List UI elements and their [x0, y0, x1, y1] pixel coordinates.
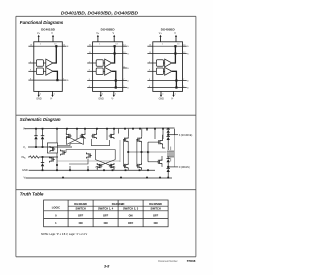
U1 internal rail wire 1 — [34, 45, 63, 47]
U1 driver buffer triangle channel 1 — [43, 59, 53, 67]
node S junction — [167, 133, 169, 137]
wire switch body loop — [174, 129, 176, 167]
wire switch gate node — [147, 142, 166, 162]
junction on V- rail x=168.2 — [167, 177, 169, 179]
footer document number — [158, 259, 195, 263]
svg-text:OFF: OFF — [128, 221, 134, 225]
wire inverter 2 gate — [137, 140, 143, 166]
U3 left pin 6 — [147, 86, 152, 88]
U1 switch wire channel 1 (to upper rails) — [53, 45, 57, 63]
U2 level shifter box channel 2 — [96, 68, 103, 75]
transistor Q4 — [109, 133, 114, 139]
U2 pin V- (bottom) — [111, 91, 117, 100]
junction on V+ rail x=163 — [162, 128, 164, 130]
IC U1 label — [41, 28, 56, 32]
U1 internal rail wire 2 — [34, 79, 63, 81]
transistor Q13 (inverter 2 N) — [136, 163, 141, 169]
transistor Q8 — [97, 163, 102, 169]
svg-text:GND: GND — [36, 98, 42, 101]
svg-text:GND: GND — [22, 168, 28, 172]
truth table row logic 1 — [55, 221, 57, 225]
terminal GND — [22, 168, 28, 172]
junction on GND rail x=148 — [147, 169, 149, 171]
terminal S (SOURCE) — [168, 135, 192, 137]
junction on V+ rail x=133 — [132, 128, 134, 130]
IC U1 body — [34, 42, 63, 92]
junction on V+ rail x=57 — [56, 128, 58, 130]
section separator rule 2 — [16, 189, 196, 191]
svg-text:S (SOURCE): S (SOURCE) — [179, 135, 193, 137]
transistor switch QSW (pass FET) — [167, 147, 174, 162]
wire drain stubs top row — [57, 129, 163, 143]
terminal V- — [24, 176, 28, 180]
junction on V+ rail x=147 — [146, 128, 148, 130]
svg-text:V-: V- — [111, 98, 113, 101]
U2 left pin 15 — [87, 52, 92, 54]
U1 pin V- (bottom) — [50, 91, 56, 100]
junction on V+ rail x=42.5 — [42, 128, 44, 130]
U3 driver buffer triangle channel 2 — [163, 67, 172, 75]
U2 left pin 9 — [87, 70, 96, 72]
heading Schematic Diagram — [20, 117, 61, 122]
transistor Q7 — [61, 150, 66, 156]
U2 left pin 8 — [87, 79, 92, 81]
U3 left pin 9 — [147, 70, 156, 72]
U2 switch wire channel 2 (to lower rails) — [112, 71, 117, 88]
U3 right pin S — [183, 45, 190, 49]
U3 internal rail wire 3 — [153, 80, 183, 82]
junction on GND rail x=125.5 — [125, 169, 127, 171]
U2 right pin D — [123, 79, 130, 83]
U3 left pin 16 — [147, 45, 152, 47]
wire driver outputs — [162, 135, 165, 167]
wire VL rail — [28, 146, 72, 148]
junction on V+ rail x=107 — [106, 128, 108, 130]
U2 left pin 6 — [87, 86, 92, 88]
U3 pin V- (bottom) — [171, 91, 177, 100]
U3 right pin S — [183, 52, 190, 56]
U2 pin GND (bottom) — [98, 91, 104, 100]
U1 right pin D — [62, 78, 69, 82]
transistor Q14 — [157, 139, 162, 145]
junction on GND rail x=112.5 — [112, 169, 114, 171]
terminal D (DRAIN) — [168, 166, 190, 169]
U2 driver buffer triangle channel 1 — [103, 59, 112, 67]
svg-text:V-: V- — [50, 98, 52, 101]
svg-text:LOGIC: LOGIC — [52, 205, 60, 209]
U1 pin V (top) — [51, 32, 57, 45]
U2 left pin 2 — [87, 61, 96, 63]
wire V- rail — [26, 177, 173, 179]
IC U3 label — [161, 28, 176, 32]
IC U2 label — [101, 28, 116, 32]
U3 left pin 8 — [147, 79, 152, 81]
junction on V+ rail x=77 — [76, 128, 78, 130]
diode D6 — [167, 156, 170, 168]
svg-text:ON: ON — [154, 221, 158, 225]
diode D3 — [41, 157, 44, 170]
U2 internal rail wire 3 — [93, 80, 123, 82]
junction on V+ rail x=155 — [154, 128, 156, 130]
node D junction — [167, 166, 169, 168]
transistor Q5 — [50, 146, 55, 152]
wire V+ rail — [25, 127, 175, 130]
svg-text:GND: GND — [98, 98, 104, 101]
svg-text:DG403/BD: DG403/BD — [112, 202, 125, 206]
svg-text:Truth Table: Truth Table — [20, 192, 44, 197]
section separator rule — [16, 114, 196, 116]
U3 right pin D — [183, 79, 190, 83]
junction on V- rail x=147 — [146, 177, 148, 179]
page header title — [61, 11, 139, 17]
U1 right pin S — [62, 45, 69, 49]
truth table footnote — [41, 233, 87, 236]
junction on V- rail x=160 — [159, 177, 161, 179]
U3 right pin D — [183, 86, 190, 90]
U1 pin GND (bottom) — [36, 91, 42, 100]
wire cross-couple Q1-Q2 — [67, 136, 84, 145]
U3 internal rail wire 2 — [153, 53, 183, 55]
terminal IN_A — [22, 155, 27, 159]
junction on V+ rail x=114 — [113, 128, 115, 130]
svg-text:DG401BD: DG401BD — [41, 28, 56, 32]
svg-text:OFF: OFF — [78, 213, 84, 217]
U1 left pin 2 — [28, 61, 36, 63]
U3 driver buffer triangle channel 1 — [163, 59, 172, 67]
transistor Q2 — [80, 133, 85, 139]
wire inverter 1 gate — [124, 140, 130, 166]
junction on GND rail x=139.5 — [139, 169, 141, 171]
svg-text:DG405/BD: DG405/BD — [149, 202, 162, 206]
svg-text:SWITCH 1, 4: SWITCH 1, 4 — [98, 207, 114, 211]
svg-text:ON: ON — [129, 213, 133, 217]
transistor Q6 — [50, 157, 55, 163]
transistor Q12 (inverter 2 P) — [136, 137, 141, 143]
U3 level shifter box channel 1 — [156, 60, 163, 67]
U2 driver buffer triangle channel 2 — [103, 67, 112, 75]
U3 left pin 15 — [147, 52, 152, 54]
svg-text:OFF: OFF — [153, 213, 159, 217]
junction on GND rail x=88 — [87, 169, 89, 171]
diode D2 — [41, 129, 44, 147]
U3 switch wire channel 2 (to lower rails) — [172, 71, 178, 88]
terminal VL — [23, 145, 27, 149]
junction on V+ rail x=168.2 — [167, 128, 169, 130]
IC U2 body — [93, 42, 123, 92]
svg-text:Functional Diagrams: Functional Diagrams — [20, 20, 64, 25]
U2 pin V (top) — [113, 32, 119, 45]
U2 level shifter box channel 1 — [96, 60, 103, 67]
svg-text:DG403BD: DG403BD — [101, 28, 116, 32]
U1 pin V+ (top) — [37, 32, 42, 45]
U1 left pin 16 — [28, 45, 33, 47]
junction on V+ rail x=97 — [96, 128, 98, 130]
junction on V- rail x=121 — [120, 177, 122, 179]
truth table header texts — [52, 205, 60, 209]
U3 left pin 2 — [147, 61, 156, 63]
svg-text:ON: ON — [104, 221, 108, 225]
wire bus 1 — [57, 139, 115, 164]
transistor Q7b — [87, 153, 92, 159]
svg-text:3-8: 3-8 — [104, 264, 109, 268]
svg-text:D (DRAIN): D (DRAIN) — [179, 166, 190, 169]
U3 internal rail wire 4 — [153, 87, 183, 89]
U1 driver buffer triangle channel 2 — [43, 67, 53, 75]
U2 right pin S — [123, 52, 130, 56]
heading Functional Diagrams — [20, 20, 64, 25]
U2 pin V+ (top) — [96, 32, 101, 45]
diode D5 — [167, 136, 170, 150]
terminal V+ — [23, 127, 27, 131]
svg-text:5TD08: 5TD08 — [187, 259, 196, 263]
transistor Q1 — [66, 133, 71, 139]
wire IN to logic cluster — [39, 156, 58, 158]
svg-text:Document Number: Document Number — [158, 260, 178, 263]
wire bottom row to GND — [57, 153, 142, 170]
junction on GND rail x=57 — [56, 169, 58, 171]
U1 left pin 9 — [28, 70, 36, 72]
junction on V+ rail x=140 — [139, 128, 141, 130]
junction on V+ rail x=36 — [35, 128, 37, 130]
svg-text:SWITCH: SWITCH — [75, 207, 85, 211]
svg-text:SWITCH 2, 3: SWITCH 2, 3 — [123, 207, 139, 211]
junction on V+ rail x=125 — [124, 128, 126, 130]
U2 left pin 16 — [87, 45, 92, 47]
junction on V+ rail x=85 — [84, 128, 86, 130]
U2 right pin D (mid) — [123, 66, 130, 70]
wire cross-couple bottom — [96, 150, 116, 168]
svg-text:OFF: OFF — [103, 213, 109, 217]
junction on V- rail x=63 — [62, 177, 64, 179]
truth table grid — [44, 200, 169, 227]
U2 internal rail wire 2 — [93, 53, 123, 55]
svg-text:DG405BD: DG405BD — [161, 28, 176, 32]
junction on GND rail x=70 — [69, 169, 71, 171]
U2 right pin S — [123, 45, 130, 49]
svg-text:DG401/BD, DG403/BD, DG405/BD: DG401/BD, DG403/BD, DG405/BD — [61, 11, 139, 17]
U3 internal rail wire 1 — [153, 45, 183, 47]
junction on V+ rail x=67 — [66, 128, 68, 130]
truth table row logic 0 — [55, 213, 57, 217]
junction on GND rail x=42.5 — [42, 169, 44, 171]
junction on GND rail x=104 — [103, 169, 105, 171]
diode D1 — [34, 129, 37, 147]
U2 internal rail wire 4 — [93, 87, 123, 89]
footer page number — [104, 264, 109, 268]
transistor Q9 — [109, 163, 114, 169]
svg-text:V-: V- — [171, 98, 173, 101]
svg-text:SWITCH: SWITCH — [150, 207, 160, 211]
diode D4 — [167, 129, 170, 133]
wire GND rail — [29, 169, 155, 171]
IC U3 body — [153, 42, 183, 92]
U2 right pin D — [123, 86, 130, 90]
transistor Q15 — [157, 159, 162, 165]
U1 level shifter box channel 2 — [36, 68, 43, 75]
svg-text:ON: ON — [79, 221, 83, 225]
transistor Q3 — [91, 133, 96, 139]
wire gray bus — [56, 161, 120, 166]
U2 internal rail wire 1 — [93, 45, 123, 47]
svg-text:NOTE: Logic “0” ≤ 0.8 V, Logic: NOTE: Logic “0” ≤ 0.8 V, Logic “1” ≥ 2.4… — [41, 233, 87, 236]
diode D7 — [167, 168, 170, 177]
U2 switch wire channel 1 (to upper rails) — [112, 45, 116, 63]
U3 pin V (top) — [174, 32, 180, 45]
transistor Q11 (inverter 1 N) — [123, 163, 128, 169]
svg-text:Schematic Diagram: Schematic Diagram — [20, 117, 61, 122]
U3 switch wire channel 1 (to upper rails) — [172, 45, 177, 63]
resistor R1 — [28, 156, 39, 158]
wire inverter outputs to driver — [120, 140, 148, 162]
U1 switch wire channel 2 (to lower rails) — [53, 71, 58, 81]
U3 pin GND (bottom) — [159, 91, 165, 100]
transistor Q10 (inverter 1 P) — [123, 137, 128, 143]
svg-text:GND: GND — [159, 98, 165, 101]
svg-text:DG401/BD: DG401/BD — [74, 202, 87, 206]
U1 level shifter box channel 1 — [36, 60, 43, 67]
feedback box — [47, 143, 57, 153]
U1 left pin 8 — [28, 78, 33, 80]
U3 level shifter box channel 2 — [156, 68, 163, 75]
U3 pin V+ (top) — [159, 32, 164, 45]
heading Truth Table — [20, 192, 44, 197]
